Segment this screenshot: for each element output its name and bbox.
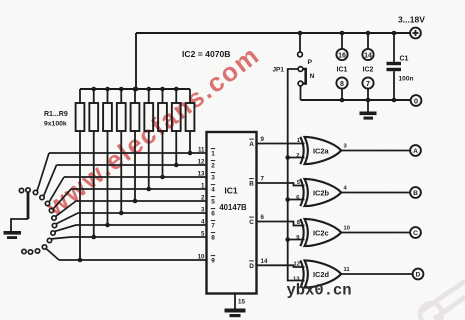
svg-text:8: 8 <box>340 81 344 88</box>
svg-text:C: C <box>249 219 254 226</box>
svg-text:10: 10 <box>198 254 205 261</box>
switch S1 wiper <box>4 193 29 240</box>
svg-text:9x100k: 9x100k <box>44 121 67 128</box>
resistor R4 <box>117 89 126 213</box>
node bus junction 6 <box>146 87 151 92</box>
terminal +V <box>410 28 421 39</box>
svg-text:13: 13 <box>198 171 205 178</box>
IC1 output D label <box>249 261 254 270</box>
jumper JP1 common contact <box>298 67 303 72</box>
capacitor C1 <box>387 33 402 100</box>
node junction R8 to input rail <box>174 163 179 168</box>
switch S1 contact 2 <box>40 165 57 200</box>
svg-text:3...18V: 3...18V <box>398 15 425 25</box>
terminal D <box>413 269 424 280</box>
svg-text:IC2 = 4070B: IC2 = 4070B <box>182 49 231 59</box>
IC1 input 6 label <box>211 209 215 218</box>
svg-text:40147B: 40147B <box>219 203 247 212</box>
IC1 output B label <box>249 179 254 188</box>
node junction R7 to input rail <box>160 175 165 180</box>
terminal B <box>410 187 421 198</box>
jumper JP1 contact N <box>298 81 303 86</box>
svg-text:IC1: IC1 <box>337 67 348 74</box>
wire resistor bus <box>80 88 190 90</box>
wire JP1 N to 0rail <box>300 86 302 100</box>
resistor R5 <box>131 89 140 201</box>
node junction R1 to input rail <box>78 258 83 263</box>
svg-text:3: 3 <box>211 175 215 182</box>
ground near IC2 supply <box>360 100 377 120</box>
wire IC2d output <box>341 273 413 275</box>
IC1 input 4 label <box>211 185 215 194</box>
svg-text:2: 2 <box>201 195 205 202</box>
switch S1 contact 5 <box>52 201 76 220</box>
svg-text:D: D <box>249 263 254 270</box>
IC1 input 2 label <box>211 161 215 170</box>
wire input rail 3 <box>64 176 207 178</box>
wire input rail 7 <box>76 224 207 226</box>
IC1 supply pin 8 <box>336 77 347 100</box>
svg-text:7: 7 <box>261 176 265 183</box>
svg-text:D: D <box>416 272 421 279</box>
svg-text:5: 5 <box>211 199 215 206</box>
svg-text:IC2: IC2 <box>363 67 374 74</box>
terminal A <box>410 145 421 156</box>
wire resistor bus feed <box>135 33 137 89</box>
switch S1 contact 9 <box>42 245 59 260</box>
wire input rail 2 <box>57 164 207 166</box>
switch S1 unused contacts <box>19 188 39 254</box>
wire JP1 line to IC2c <box>288 239 305 241</box>
watermark <box>419 281 465 320</box>
wire input rail 8 <box>71 236 207 238</box>
svg-text:7: 7 <box>211 223 215 230</box>
svg-text:IC1: IC1 <box>224 186 238 196</box>
wire 0V rail <box>301 99 411 101</box>
IC1 input 1 label <box>211 149 215 158</box>
wire IC2a output <box>341 150 410 152</box>
node junction R6 to input rail <box>146 187 151 192</box>
node bus junction 8 <box>174 87 179 92</box>
svg-text:12: 12 <box>198 159 205 166</box>
XOR gate IC2b <box>300 179 341 206</box>
svg-text:6: 6 <box>211 211 215 218</box>
svg-text:9: 9 <box>261 136 265 143</box>
svg-text:7: 7 <box>366 81 370 88</box>
svg-text:100n: 100n <box>399 76 414 83</box>
svg-text:B: B <box>413 190 418 197</box>
jumper JP1 wire from +rail <box>299 33 301 52</box>
node junction IC1 supply on +rail <box>340 31 345 36</box>
resistor R2 <box>89 89 98 237</box>
switch S1 contact 1 <box>33 153 49 195</box>
node junction JP1 line to IC2b <box>285 197 290 202</box>
node junction R5 to input rail <box>133 199 138 204</box>
resistor R8 <box>172 89 181 165</box>
svg-text:1: 1 <box>201 183 205 190</box>
svg-text:IC2a: IC2a <box>313 146 330 155</box>
IC1 input 3 label <box>211 173 215 182</box>
switch S1 contact 8 <box>47 237 71 243</box>
node bus junction 4 <box>119 87 124 92</box>
node junction C1 on 0rail <box>392 98 397 103</box>
svg-text:5: 5 <box>201 231 205 238</box>
IC1 supply pin 16 <box>336 33 347 60</box>
resistor R9 <box>186 89 195 153</box>
IC1 output A label <box>249 139 254 148</box>
jumper JP1 contact P <box>298 52 303 57</box>
wire JP1 common to gates <box>288 69 305 281</box>
wire input rail 4 <box>71 188 207 190</box>
IC2 supply pin 14 <box>362 33 373 60</box>
resistor R6 <box>144 89 153 189</box>
terminal C <box>410 227 421 238</box>
XOR gate IC2d <box>300 260 341 287</box>
svg-text:C1: C1 <box>400 56 409 63</box>
svg-text:4: 4 <box>211 187 215 194</box>
wire input rail 1 <box>49 152 207 154</box>
ground at IC1 pin 15 <box>225 309 246 318</box>
svg-text:15: 15 <box>238 299 245 306</box>
wire IC1 D to IC2d <box>257 265 305 267</box>
svg-text:IC2c: IC2c <box>313 228 329 237</box>
IC1 input 9 label <box>211 256 215 265</box>
svg-text:C: C <box>413 230 418 237</box>
jumper JP1 shunt N <box>303 69 306 84</box>
switch S1 contact 3 <box>45 177 64 206</box>
svg-text:6: 6 <box>261 214 265 221</box>
node junction R3 to input rail <box>105 223 110 228</box>
wire input rail 9 <box>59 259 207 261</box>
node junction P-branch on +rail <box>298 31 303 36</box>
svg-text:A: A <box>413 148 418 155</box>
svg-text:14: 14 <box>364 52 372 59</box>
svg-text:2: 2 <box>211 163 215 170</box>
IC1 input 8 label <box>211 233 215 242</box>
node bus junction 5 <box>133 87 138 92</box>
svg-text:IC2b: IC2b <box>313 188 330 197</box>
svg-text:ybx0.cn: ybx0.cn <box>287 282 352 300</box>
XOR gate IC2c <box>300 219 341 246</box>
node junction IC1 gnd on 0rail <box>340 98 345 103</box>
svg-text:12: 12 <box>294 261 300 267</box>
switch S1 contact 4 <box>49 189 71 213</box>
svg-text:0: 0 <box>414 96 418 105</box>
switch S1 contact 6 <box>52 213 78 228</box>
wire input rail 5 <box>76 200 207 202</box>
XOR gate IC2a <box>300 137 341 164</box>
node junction IC2 supply on +rail <box>366 31 371 36</box>
wire JP1 line to IC2b <box>288 199 305 201</box>
svg-text:JP1: JP1 <box>273 67 285 74</box>
node bus junction 2 <box>91 87 96 92</box>
svg-text:N: N <box>310 73 315 80</box>
IC2 supply pin 7 <box>362 77 373 100</box>
svg-text:11: 11 <box>344 267 351 273</box>
svg-text:B: B <box>249 181 254 188</box>
IC1 output C label <box>249 217 254 226</box>
wire IC1 A to IC2a <box>257 143 305 145</box>
IC1 input 5 label <box>211 197 215 206</box>
resistor R7 <box>158 89 167 177</box>
resistor R3 <box>103 89 112 225</box>
wire IC1 C to IC2c <box>257 222 305 226</box>
svg-text:3: 3 <box>201 207 205 214</box>
IC IC1 40147B body <box>207 132 257 294</box>
terminal 0V <box>411 95 422 106</box>
svg-text:16: 16 <box>338 52 346 59</box>
IC1 pin 15 wire <box>234 294 236 309</box>
svg-text:9: 9 <box>211 258 215 265</box>
svg-text:8: 8 <box>211 235 215 242</box>
node junction R9 to input rail <box>188 151 193 156</box>
node bus junction 3 <box>105 87 110 92</box>
node bus feed junction <box>134 87 139 92</box>
switch S1 contact 7 <box>51 225 76 235</box>
node junction R4 to input rail <box>119 211 124 216</box>
wire IC2c output <box>341 232 410 234</box>
node junction IC2 gnd on 0rail <box>366 98 371 103</box>
node junction R2 to input rail <box>91 235 96 240</box>
wire IC1 B to IC2b <box>257 183 305 186</box>
svg-text:2: 2 <box>296 153 299 159</box>
svg-text:IC2d: IC2d <box>313 270 330 279</box>
wire input rail 6 <box>78 212 207 214</box>
wire JP1 line to IC2a <box>288 157 305 159</box>
svg-text:4: 4 <box>201 219 205 226</box>
wire positive supply rail <box>136 32 410 34</box>
wire IC2b output <box>341 192 410 194</box>
svg-text:1: 1 <box>211 151 215 158</box>
svg-text:10: 10 <box>344 225 350 231</box>
node junction JP1 line to IC2a <box>285 155 290 160</box>
svg-text:R1...R9: R1...R9 <box>44 111 68 118</box>
svg-text:P: P <box>308 59 313 66</box>
IC1 input 7 label <box>211 221 215 230</box>
node bus junction 7 <box>160 87 165 92</box>
svg-text:14: 14 <box>261 258 268 265</box>
node junction C1 on +rail <box>392 31 397 36</box>
svg-text:11: 11 <box>198 147 205 154</box>
node junction JP1 line to IC2c <box>285 237 290 242</box>
svg-text:A: A <box>249 141 254 148</box>
resistor R1 <box>76 89 85 260</box>
